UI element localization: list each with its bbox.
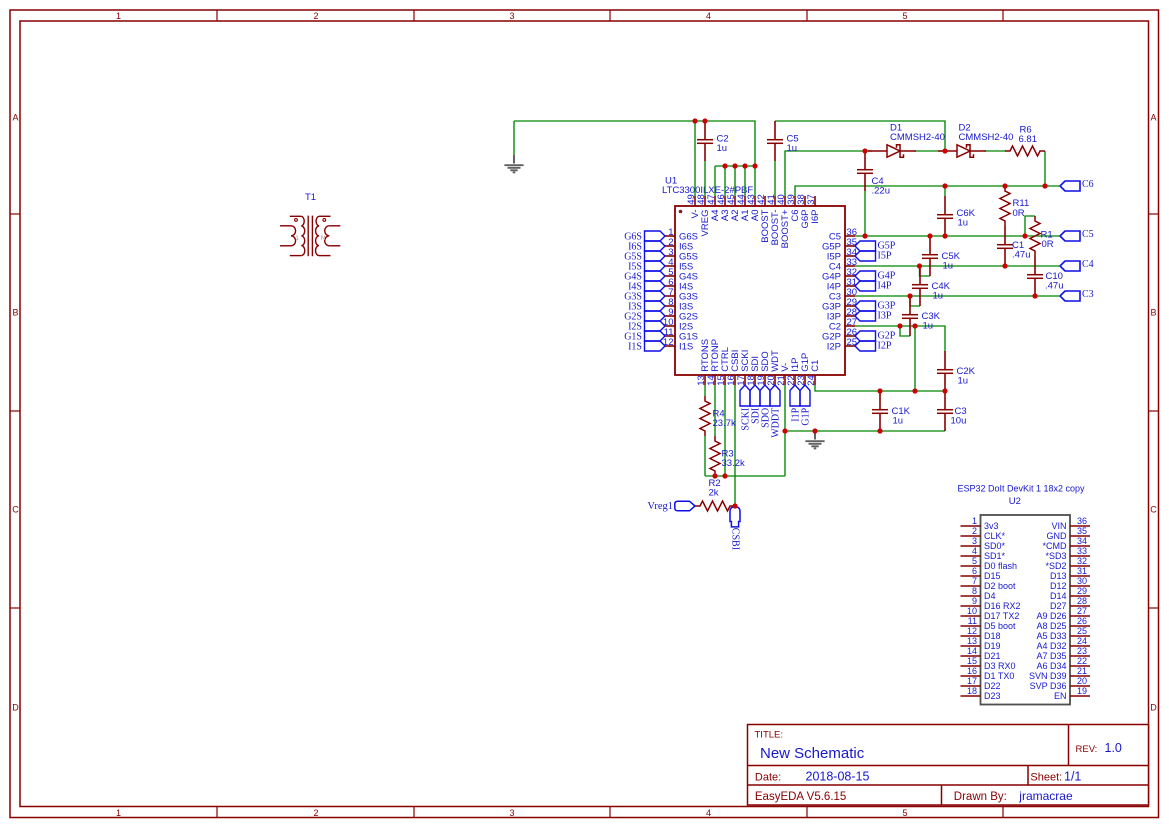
resistor R4 xyxy=(700,396,710,436)
svg-text:11: 11 xyxy=(968,616,977,626)
svg-text:CMMSH2-40: CMMSH2-40 xyxy=(890,132,945,143)
left port labels G6S-I1S xyxy=(624,231,642,352)
svg-text:U2: U2 xyxy=(1009,496,1021,507)
svg-text:32: 32 xyxy=(1077,556,1087,566)
svg-text:*SD2: *SD2 xyxy=(1045,561,1066,571)
svg-text:7: 7 xyxy=(972,576,977,586)
svg-text:20: 20 xyxy=(1077,676,1087,686)
svg-text:D27: D27 xyxy=(1050,601,1067,611)
svg-text:24: 24 xyxy=(806,375,817,386)
svg-text:D: D xyxy=(1150,703,1157,713)
svg-text:2k: 2k xyxy=(709,488,719,499)
svg-text:.47u: .47u xyxy=(1045,281,1064,292)
svg-text:A5 D33: A5 D33 xyxy=(1036,631,1066,641)
svg-text:D22: D22 xyxy=(984,681,1001,691)
svg-text:Vreg1: Vreg1 xyxy=(647,501,673,512)
svg-text:C: C xyxy=(1150,505,1157,515)
svg-text:21: 21 xyxy=(1077,666,1087,676)
svg-text:C6: C6 xyxy=(1082,179,1094,190)
svg-text:WDDT: WDDT xyxy=(770,408,781,438)
resistor R11 xyxy=(1000,186,1010,226)
svg-text:1u: 1u xyxy=(958,217,969,228)
svg-text:VIN: VIN xyxy=(1051,521,1066,531)
svg-text:18: 18 xyxy=(967,686,977,696)
svg-text:1u: 1u xyxy=(958,376,969,387)
svg-text:EasyEDA V5.6.15: EasyEDA V5.6.15 xyxy=(755,791,846,803)
svg-text:EN: EN xyxy=(1054,691,1067,701)
svg-text:D23: D23 xyxy=(984,691,1001,701)
svg-text:1: 1 xyxy=(972,516,977,526)
svg-text:17: 17 xyxy=(967,676,977,686)
capacitor C3K xyxy=(902,296,918,336)
U1 right pin numbers xyxy=(847,227,858,348)
svg-text:36: 36 xyxy=(1077,516,1087,526)
resistor R6 xyxy=(1005,146,1045,156)
svg-text:23.7k: 23.7k xyxy=(713,418,736,429)
svg-text:1: 1 xyxy=(295,235,299,242)
U1 right pin stubs 36-25 xyxy=(845,236,855,346)
svg-text:N: N xyxy=(321,235,326,242)
U1 left pin names xyxy=(679,231,698,352)
svg-text:D0 flash: D0 flash xyxy=(984,561,1017,571)
svg-text:D18: D18 xyxy=(984,631,1001,641)
svg-text:D19: D19 xyxy=(984,641,1001,651)
netflag Vreg1 xyxy=(675,501,695,511)
module U2 body xyxy=(981,515,1071,705)
ground xyxy=(805,431,824,448)
U1 top pin names xyxy=(690,209,821,248)
bottom port labels xyxy=(740,407,811,437)
svg-text:GND: GND xyxy=(1047,531,1068,541)
svg-text:I1S: I1S xyxy=(628,341,642,352)
svg-text:CSBI: CSBI xyxy=(730,528,741,550)
svg-text:*CMD: *CMD xyxy=(1043,541,1067,551)
svg-text:10: 10 xyxy=(967,606,977,616)
svg-text:I3P: I3P xyxy=(878,311,892,322)
svg-text:C5: C5 xyxy=(1082,229,1094,240)
capacitor C5K xyxy=(922,236,938,276)
U2 pin stubs xyxy=(961,526,1091,696)
U1 left pin numbers xyxy=(663,227,674,348)
svg-text:D16 RX2: D16 RX2 xyxy=(984,601,1021,611)
svg-text:4: 4 xyxy=(972,546,977,556)
capacitor C1K xyxy=(872,391,888,431)
svg-text:.47u: .47u xyxy=(1012,250,1031,261)
svg-text:35: 35 xyxy=(1077,526,1087,536)
U2 pin numbers xyxy=(967,516,1087,696)
svg-text:1u: 1u xyxy=(943,261,954,272)
svg-text:5: 5 xyxy=(902,808,907,818)
resistor R1 xyxy=(1030,216,1040,256)
svg-text:29: 29 xyxy=(1077,586,1087,596)
svg-text:Drawn By:: Drawn By: xyxy=(954,791,1007,803)
svg-text:1u: 1u xyxy=(787,143,798,154)
svg-text:SVP D36: SVP D36 xyxy=(1030,681,1067,691)
junctions xyxy=(692,118,1047,508)
svg-text:SVN D39: SVN D39 xyxy=(1029,671,1067,681)
svg-text:G1P: G1P xyxy=(800,407,811,425)
svg-text:8: 8 xyxy=(972,586,977,596)
svg-text:C: C xyxy=(12,505,19,515)
svg-text:D15: D15 xyxy=(984,571,1001,581)
capacitor C1 xyxy=(997,226,1013,266)
svg-text:CLK*: CLK* xyxy=(984,531,1006,541)
diode D1 xyxy=(868,145,916,157)
U1 bottom pin names xyxy=(700,339,821,372)
diode D2 xyxy=(938,145,986,157)
U1 left pin stubs 1-12 xyxy=(665,236,675,346)
svg-text:3: 3 xyxy=(509,11,514,21)
svg-text:0R: 0R xyxy=(1042,239,1054,250)
capacitor C2 xyxy=(697,121,713,161)
svg-text:14: 14 xyxy=(967,646,977,656)
svg-text:34: 34 xyxy=(1077,536,1087,546)
svg-text:.22u: .22u xyxy=(872,185,891,196)
wires xyxy=(514,121,1060,506)
svg-text:23: 23 xyxy=(1077,646,1087,656)
svg-text:C3: C3 xyxy=(1082,289,1094,300)
svg-text:3: 3 xyxy=(972,536,977,546)
svg-text:9: 9 xyxy=(972,596,977,606)
svg-text:15: 15 xyxy=(967,656,977,666)
svg-text:33: 33 xyxy=(1077,546,1087,556)
svg-text:D1 TX0: D1 TX0 xyxy=(984,671,1014,681)
svg-text:1u: 1u xyxy=(717,143,728,154)
svg-text:1: 1 xyxy=(116,11,121,21)
capacitor C10 xyxy=(1027,256,1043,296)
svg-text:I5P: I5P xyxy=(878,251,892,262)
svg-text:D13: D13 xyxy=(1050,571,1067,581)
svg-text:12: 12 xyxy=(967,626,977,636)
U1 bottom pin numbers xyxy=(696,375,817,386)
svg-text:D14: D14 xyxy=(1050,591,1067,601)
svg-text:1u: 1u xyxy=(893,416,904,427)
ports C6 C5 C4 C3 xyxy=(1060,181,1080,301)
svg-text:jramacrae: jramacrae xyxy=(1018,789,1073,803)
capacitor C2K xyxy=(937,351,953,391)
svg-text:A: A xyxy=(12,113,18,123)
svg-text:B: B xyxy=(1150,308,1156,318)
svg-text:31: 31 xyxy=(1077,566,1087,576)
svg-text:1.0: 1.0 xyxy=(1105,741,1122,755)
svg-text:D17 TX2: D17 TX2 xyxy=(984,611,1019,621)
svg-text:22: 22 xyxy=(1077,656,1087,666)
port labels C6 C5 C4 C3 xyxy=(1082,179,1094,300)
svg-text:1u: 1u xyxy=(933,291,944,302)
svg-text:0R: 0R xyxy=(1013,208,1025,219)
svg-text:1u: 1u xyxy=(923,321,934,332)
svg-text:33.2k: 33.2k xyxy=(722,458,745,469)
svg-text:D3 RX0: D3 RX0 xyxy=(984,661,1016,671)
svg-text:A9 D26: A9 D26 xyxy=(1036,611,1066,621)
svg-text:ESP32 DoIt DevKit 1 18x2 copy: ESP32 DoIt DevKit 1 18x2 copy xyxy=(957,484,1085,494)
svg-text:TITLE:: TITLE: xyxy=(755,729,784,740)
svg-text:26: 26 xyxy=(1077,616,1087,626)
svg-text:A: A xyxy=(1150,113,1156,123)
svg-text:37: 37 xyxy=(806,194,817,205)
port CSBI xyxy=(730,507,740,527)
svg-text:5: 5 xyxy=(972,556,977,566)
svg-text:C4: C4 xyxy=(1082,259,1094,270)
op-amp U1 body xyxy=(675,206,845,375)
U2 pin names xyxy=(984,521,1067,701)
svg-text:4: 4 xyxy=(706,808,711,818)
svg-text:D12: D12 xyxy=(1050,581,1067,591)
svg-text:10u: 10u xyxy=(951,416,967,427)
svg-text:16: 16 xyxy=(967,666,977,676)
svg-text:1: 1 xyxy=(116,808,121,818)
capacitor C5 xyxy=(767,121,783,161)
svg-text:I2P: I2P xyxy=(827,341,841,352)
bottom port flags xyxy=(740,385,810,406)
svg-text:D21: D21 xyxy=(984,651,1001,661)
svg-text:B: B xyxy=(12,308,18,318)
U1 top pin stubs 49-37 xyxy=(695,196,815,206)
resistor R3 xyxy=(710,436,720,476)
svg-text:24: 24 xyxy=(1077,636,1087,646)
svg-text:3v3: 3v3 xyxy=(984,521,999,531)
svg-text:SD1*: SD1* xyxy=(984,551,1006,561)
svg-text:Date:: Date: xyxy=(755,771,781,783)
svg-text:D: D xyxy=(12,703,19,713)
svg-text:28: 28 xyxy=(1077,596,1087,606)
svg-text:D2 boot: D2 boot xyxy=(984,581,1016,591)
svg-text:2: 2 xyxy=(972,526,977,536)
svg-text:Sheet:: Sheet: xyxy=(1030,771,1062,783)
svg-text:I2P: I2P xyxy=(878,341,892,352)
svg-text:I4P: I4P xyxy=(878,281,892,292)
svg-text:CMMSH2-40: CMMSH2-40 xyxy=(959,132,1014,143)
svg-text:C1: C1 xyxy=(810,360,821,372)
svg-text:A4 D32: A4 D32 xyxy=(1036,641,1066,651)
svg-text:6.81: 6.81 xyxy=(1019,134,1038,145)
svg-text:New Schematic: New Schematic xyxy=(760,745,865,762)
svg-text:SD0*: SD0* xyxy=(984,541,1006,551)
svg-text:30: 30 xyxy=(1077,576,1087,586)
svg-text:2018-08-15: 2018-08-15 xyxy=(806,769,870,783)
transformer T1 xyxy=(280,216,340,257)
U1 top pin numbers xyxy=(686,194,817,205)
svg-text:13: 13 xyxy=(967,636,977,646)
svg-text:2: 2 xyxy=(313,808,318,818)
svg-text:19: 19 xyxy=(1077,686,1087,696)
capacitor C3 xyxy=(937,391,953,431)
capacitor C4K xyxy=(912,266,928,306)
svg-text:D4: D4 xyxy=(984,591,996,601)
title block xyxy=(748,725,1149,806)
right port flags G5P-I2P xyxy=(855,241,876,351)
ground xyxy=(504,155,523,172)
svg-text:A6 D34: A6 D34 xyxy=(1036,661,1066,671)
svg-text:5: 5 xyxy=(902,11,907,21)
svg-text:I6P: I6P xyxy=(810,210,821,224)
svg-text:D5 boot: D5 boot xyxy=(984,621,1016,631)
svg-text:REV:: REV: xyxy=(1076,744,1098,755)
svg-text:LTC3300ILXE-2#PBF: LTC3300ILXE-2#PBF xyxy=(662,185,753,196)
resistor R2 xyxy=(695,501,735,511)
svg-text:I1S: I1S xyxy=(679,341,693,352)
svg-text:6: 6 xyxy=(972,566,977,576)
svg-text:A7 D35: A7 D35 xyxy=(1036,651,1066,661)
svg-text:2: 2 xyxy=(313,11,318,21)
svg-text:T1: T1 xyxy=(305,192,316,203)
svg-text:27: 27 xyxy=(1077,606,1087,616)
capacitor C6K xyxy=(937,196,953,236)
svg-text:*SD3: *SD3 xyxy=(1045,551,1066,561)
U1 right pin names xyxy=(822,231,841,352)
right port labels G5P-I2P xyxy=(878,241,896,352)
left port flags G6S-I1S xyxy=(645,231,666,351)
svg-text:25: 25 xyxy=(1077,626,1087,636)
svg-text:3: 3 xyxy=(509,808,514,818)
svg-text:1/1: 1/1 xyxy=(1064,769,1081,783)
U1 bottom pin stubs 13-24 xyxy=(705,375,815,385)
svg-text:A8 D25: A8 D25 xyxy=(1036,621,1066,631)
svg-text:4: 4 xyxy=(706,11,711,21)
capacitor C4 xyxy=(857,151,873,191)
